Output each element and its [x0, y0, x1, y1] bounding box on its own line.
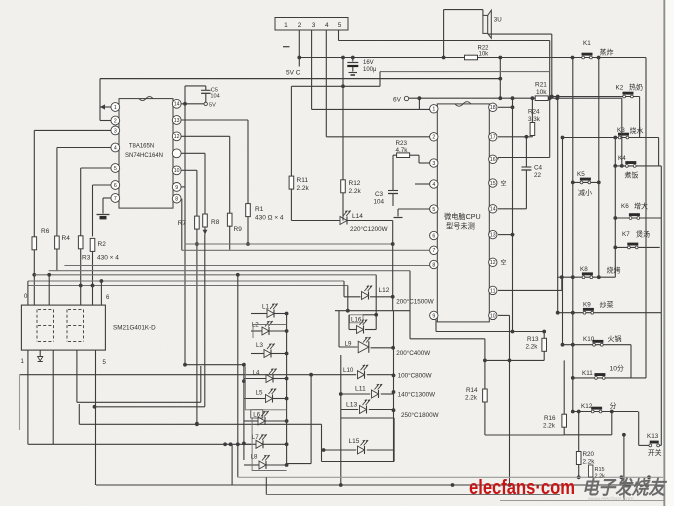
wire U1 pin12 to R9 [181, 135, 230, 137]
wire R1 down [247, 217, 249, 244]
svg-text:K2: K2 [616, 85, 624, 92]
wire bottom rail y477.3 [238, 476, 663, 478]
resistor R7 [195, 216, 200, 229]
svg-text:分: 分 [610, 401, 617, 410]
svg-text:104: 104 [374, 199, 385, 206]
label L6 box [251, 410, 263, 418]
wire y364.7 stub [185, 364, 244, 366]
wire LED column left rail [237, 275, 239, 478]
wire R23 to U2 pin3 [410, 154, 419, 156]
svg-text:K5: K5 [577, 171, 585, 178]
svg-text:K8: K8 [580, 266, 588, 273]
svg-text:100°C800W: 100°C800W [398, 372, 432, 380]
svg-text:2: 2 [114, 118, 117, 124]
wire display pin bottom x94.5 [95, 350, 97, 485]
wire U2 pin18 stub [498, 106, 513, 108]
wire 6V to K4 [621, 98, 623, 166]
svg-text:3: 3 [312, 22, 316, 29]
svg-text:www.elecfans.com: www.elecfans.com [587, 497, 634, 503]
wire riser x500 [499, 58, 501, 99]
svg-text:4: 4 [114, 145, 117, 151]
svg-text:16V: 16V [363, 60, 374, 66]
svg-text:2.2k: 2.2k [595, 474, 606, 480]
LED L14 [340, 217, 347, 225]
wire U2 pin17 to R24 [498, 136, 532, 138]
U1 pin 13 [172, 116, 181, 125]
wire 6V rail [409, 97, 622, 99]
svg-text:K9: K9 [583, 302, 591, 309]
wire U1 pin1/pin2 link [99, 79, 101, 121]
svg-text:14: 14 [174, 102, 180, 108]
wire U2 pin13 stub [498, 234, 513, 236]
svg-text:K11: K11 [582, 370, 593, 377]
resistor R1 [246, 204, 251, 217]
U2 pin 16 [489, 155, 497, 163]
svg-text:L7: L7 [252, 434, 259, 441]
U2 pin 11 [489, 286, 497, 294]
svg-text:L5: L5 [256, 390, 263, 397]
svg-text:SN74HC164N: SN74HC164N [125, 153, 163, 159]
wire K1 right corner [645, 58, 647, 378]
wire display pin bottom x76.9 [76, 350, 78, 402]
wire K9 row [558, 312, 662, 314]
wire L9 row [339, 346, 358, 348]
svg-text:空: 空 [501, 259, 507, 267]
wire bus y281 [28, 280, 344, 282]
resistor R8 [203, 214, 208, 227]
wire K5 right down [598, 58, 600, 278]
wire R8 down arrow [204, 226, 206, 234]
U2 pin 17 [489, 133, 497, 141]
button K5 [580, 181, 583, 184]
capacitor C5 104 [185, 85, 206, 87]
resistor R12 2.2k [341, 180, 346, 193]
wire y444.3 row [28, 443, 251, 445]
LED L8 [259, 461, 266, 469]
svg-text:22: 22 [534, 172, 542, 179]
U1 pin 1 [111, 103, 120, 112]
U1 pin 10 [172, 166, 181, 175]
wire U1 pin11 to R8 [181, 152, 205, 154]
svg-text:10k: 10k [479, 52, 490, 58]
svg-text:6: 6 [114, 183, 117, 189]
resistor R15 2.2k behind watermark [589, 465, 593, 477]
svg-text:L11: L11 [355, 386, 366, 393]
U1 pin 6 [111, 181, 120, 190]
wire U2 pin14 to C4 [498, 208, 526, 210]
svg-text:K7: K7 [622, 231, 630, 238]
svg-text:L15: L15 [349, 438, 360, 445]
LED L12 [362, 292, 369, 300]
svg-text:16: 16 [490, 157, 496, 163]
wire L2 row [251, 330, 262, 332]
wire R6 down to display [33, 250, 35, 305]
svg-text:6V: 6V [393, 97, 402, 104]
U2 pin 14 [489, 205, 497, 213]
wire bus y86.3 to R11 [291, 85, 380, 87]
svg-text:减小: 减小 [578, 188, 592, 197]
svg-text:R7: R7 [178, 220, 187, 227]
svg-text:热奶: 热奶 [629, 83, 643, 92]
svg-text:2.2k: 2.2k [583, 459, 596, 466]
resistor R2 [90, 238, 95, 251]
wire K2 row [552, 96, 640, 98]
svg-text:炒菜: 炒菜 [600, 300, 614, 309]
resistor R4 [55, 236, 60, 249]
svg-text:开关: 开关 [648, 448, 662, 457]
LED L16 [357, 326, 364, 334]
wire R20 leads [578, 412, 580, 452]
wire U2 pin16 right [498, 157, 550, 159]
svg-text:10: 10 [490, 313, 496, 319]
wire L16 loop right leg [409, 271, 411, 339]
wire y424.3 row [78, 404, 80, 424]
wire K12 row [573, 411, 638, 413]
svg-text:微电脑CPU: 微电脑CPU [444, 212, 481, 221]
wire U1 pin5 to R3 [81, 167, 111, 169]
svg-text:14: 14 [490, 207, 496, 213]
wire R14 leads [484, 339, 486, 389]
wire R13 top [543, 332, 545, 339]
wire U1 pin14 to 5V node [181, 103, 204, 105]
button K8 [582, 276, 585, 279]
wire J1 pin3 to CPU pin1 row [311, 30, 313, 109]
LED L6 [258, 417, 265, 425]
IC U1 SN74HC164N body [119, 99, 173, 209]
wire L7 row [244, 443, 256, 445]
U1 pin 14 [172, 99, 181, 108]
NC mark pin1 [283, 46, 290, 48]
wire U1 pin3 to R6 [34, 129, 111, 131]
wire left hook x339 [338, 311, 340, 347]
svg-text:1: 1 [284, 22, 288, 29]
U2 pin 10 [489, 311, 497, 319]
U1 pin 12 [172, 132, 181, 141]
svg-text:430 Ω × 4: 430 Ω × 4 [255, 215, 284, 222]
svg-text:L6: L6 [253, 411, 260, 418]
wire bus y265.5 to U2 pin8 [64, 265, 429, 267]
svg-text:9: 9 [432, 313, 435, 319]
svg-text:L10: L10 [343, 367, 354, 374]
resistor R22 10k [465, 55, 478, 60]
capacitor C2 electrolytic 16V 100u [352, 58, 354, 62]
svg-text:11: 11 [490, 288, 495, 294]
U1 pin 8 [172, 194, 181, 203]
wire y406.8 [95, 406, 205, 408]
LED L13 [360, 406, 367, 414]
ground U1 pin7 [97, 214, 110, 216]
svg-text:K13: K13 [647, 433, 659, 440]
svg-text:R20: R20 [583, 451, 595, 458]
U2 pin 4 [430, 180, 438, 188]
button K12 [591, 410, 594, 413]
wire U2 pin10 down [498, 314, 510, 316]
wire U1 pin6 to R2 [93, 184, 111, 186]
svg-text:L14: L14 [352, 213, 363, 220]
svg-text:T8A165N: T8A165N [129, 144, 154, 150]
wire bottom right y500.5 [500, 500, 665, 502]
svg-text:6: 6 [432, 233, 435, 239]
svg-text:2.2k: 2.2k [349, 188, 362, 195]
wire K7 row [615, 246, 659, 248]
svg-text:5: 5 [338, 22, 342, 29]
U2 pin 8 [430, 260, 438, 268]
wire K13 row [639, 444, 651, 446]
CPU U2 body [437, 104, 489, 322]
wire R3 down to display [80, 249, 82, 305]
svg-text:8: 8 [175, 196, 178, 202]
U1 pin 4 [111, 143, 120, 152]
svg-text:13: 13 [490, 232, 496, 238]
wire U1 pin8 down [181, 199, 183, 251]
svg-text:12: 12 [174, 134, 180, 140]
U2 pin 2 [430, 133, 438, 141]
button K4 [626, 165, 629, 168]
wire L1 row [251, 313, 267, 315]
wire K12-K13 link [638, 412, 640, 446]
svg-text:2: 2 [432, 135, 435, 141]
wire C4 top [525, 137, 527, 164]
U2 pin 7 [430, 246, 438, 254]
wire long row y374.7 [20, 374, 357, 376]
wire left edge drop [27, 281, 29, 305]
capacitor C3 104 [388, 190, 398, 192]
wire display pin bottom x53.2 [52, 350, 54, 444]
wire R16 bottom [563, 427, 565, 435]
svg-text:蒸炸: 蒸炸 [600, 48, 614, 57]
wire y310.7 [335, 310, 410, 312]
svg-text:8: 8 [432, 262, 435, 268]
wire J1 pin4 to CPU pin2 [325, 30, 327, 137]
wire L14 row [291, 220, 339, 222]
wire LED group right rail [393, 311, 395, 462]
resistor R9 [227, 213, 232, 226]
resistor R21 10k [535, 96, 548, 101]
wire y402.3 [77, 401, 201, 403]
svg-text:10: 10 [174, 168, 180, 174]
svg-text:增大: 增大 [634, 202, 648, 211]
svg-text:3: 3 [114, 128, 117, 134]
svg-text:C4: C4 [534, 165, 543, 172]
svg-text:3: 3 [432, 161, 435, 167]
wire K4 row [615, 165, 661, 167]
wire L6 row [244, 420, 258, 422]
wire L8 row [244, 464, 259, 466]
wire L2 frame [253, 325, 287, 339]
svg-text:140°C1300W: 140°C1300W [398, 391, 436, 399]
svg-text:10分: 10分 [610, 364, 625, 373]
wire U2 pin9 down [435, 320, 437, 332]
wire display feed x101.4 [100, 281, 102, 305]
svg-text:200°C400W: 200°C400W [396, 349, 430, 357]
svg-text:12: 12 [490, 260, 496, 266]
wire L10 row [367, 374, 394, 376]
svg-text:4.7k: 4.7k [396, 147, 409, 154]
wire R12 leads [342, 58, 344, 180]
wire L3 row [251, 353, 264, 355]
svg-text:1: 1 [114, 105, 117, 111]
svg-text:K3: K3 [617, 127, 625, 134]
wire 6V to CPU pin1 [418, 98, 420, 109]
svg-text:430 × 4: 430 × 4 [97, 255, 119, 262]
wire LED column left rail 2 [243, 365, 245, 460]
svg-text:2: 2 [298, 22, 302, 29]
svg-text:2.2k: 2.2k [465, 395, 478, 402]
LED L10 [358, 371, 365, 379]
wire L13 row [341, 409, 358, 411]
wire bus y250.3 to U2 pin7 [182, 249, 430, 251]
display decimal diode [39, 350, 41, 356]
resistor R14 2.2k [483, 389, 488, 402]
wire rail x615.3 [614, 138, 616, 278]
wire L6-L8 frame [252, 418, 287, 471]
U2 pin 6 [430, 231, 438, 239]
resistor R24 3.3k [530, 123, 535, 136]
LED L9 big [358, 341, 369, 353]
svg-text:R11: R11 [297, 177, 309, 184]
svg-text:型号未测: 型号未测 [446, 221, 475, 230]
svg-text:R3: R3 [82, 255, 91, 262]
svg-text:烧烤: 烧烤 [607, 266, 621, 275]
svg-text:1: 1 [432, 107, 435, 113]
svg-text:K12: K12 [581, 403, 593, 410]
svg-text:18: 18 [490, 105, 496, 111]
svg-text:2.2k: 2.2k [543, 423, 556, 430]
svg-text:烧水: 烧水 [630, 126, 644, 135]
wire L4 row [244, 378, 266, 380]
resistor R20 2.2k [576, 452, 581, 465]
svg-text:L12: L12 [379, 287, 390, 294]
svg-text:9: 9 [175, 185, 178, 191]
wire K5 row [573, 181, 599, 183]
wire 5V rail [299, 57, 646, 59]
svg-text:200°C1500W: 200°C1500W [396, 298, 434, 306]
wire L5 row [244, 398, 265, 400]
LED L5 [266, 395, 273, 403]
wire K4-K6 link [660, 166, 662, 218]
button K2 [623, 95, 626, 98]
wire R16 riser [563, 360, 565, 415]
svg-text:火锅: 火锅 [608, 334, 622, 343]
svg-text:250°C1800W: 250°C1800W [401, 411, 439, 419]
wire K6 row [615, 217, 661, 219]
button K13 [649, 444, 652, 447]
svg-text:C3: C3 [375, 191, 384, 198]
wire K10-K11 link [630, 345, 632, 378]
wire L4 frame [245, 367, 286, 410]
wire x340.8 riser [340, 355, 342, 485]
wire R4 down [56, 249, 58, 271]
wire x623.9 drop [623, 435, 625, 501]
U1 pin 9 [172, 183, 181, 192]
U2 pin 18 [489, 103, 497, 111]
wire L15 loop [321, 424, 323, 461]
button K9 [583, 311, 586, 314]
U1 pin 5 [111, 164, 120, 173]
svg-text:10k: 10k [536, 89, 547, 96]
wire bottom y494.5 [265, 477, 267, 494]
wire L16 loop [363, 314, 376, 316]
svg-text:煲汤: 煲汤 [636, 230, 650, 239]
svg-text:R4: R4 [62, 235, 71, 242]
wire K8 row [558, 276, 616, 278]
svg-text:R12: R12 [349, 180, 361, 187]
svg-text:R1: R1 [255, 206, 264, 213]
wire K3 row [563, 137, 659, 139]
capacitor C4 [525, 164, 527, 167]
wire bus y285.5 [28, 285, 348, 287]
wire LED column right rail [286, 314, 288, 464]
svg-text:2.2k: 2.2k [526, 344, 539, 351]
U1 pin 3 [111, 126, 120, 135]
wire R2 down to display [92, 251, 94, 305]
wire J1 pin2 to 5V rail [298, 31, 300, 67]
svg-text:L4: L4 [253, 370, 260, 377]
svg-text:15: 15 [490, 181, 496, 187]
resistor R13 2.2k [542, 338, 547, 351]
svg-text:2.2k: 2.2k [297, 185, 310, 192]
U2 pin 3 [430, 159, 438, 167]
wire bus y274.8 [34, 274, 376, 276]
svg-text:7: 7 [432, 248, 435, 254]
wire bus y270.7 [49, 270, 410, 272]
button K3 [618, 136, 621, 139]
wire display pin bottom x27.9 [27, 350, 29, 444]
svg-text:K10: K10 [583, 336, 595, 343]
LED L4 [266, 375, 273, 383]
wire R11 to L14 [290, 189, 292, 221]
wire K2-K3 link [639, 97, 641, 138]
wire U1 pin9 down [181, 186, 185, 188]
svg-text:L1: L1 [262, 304, 269, 311]
button K11 [595, 377, 598, 380]
LED L11 [372, 390, 379, 398]
U2 pin 15 [489, 179, 497, 187]
svg-text:R6: R6 [41, 228, 50, 235]
U2 pin 1 [430, 105, 438, 113]
U1 pin 2 [111, 116, 120, 125]
svg-text:K1: K1 [583, 40, 591, 47]
svg-text:R16: R16 [544, 415, 556, 422]
wire U1 pin1 input arrow [100, 106, 111, 108]
wire speaker bottom lead [488, 33, 552, 35]
svg-text:L3: L3 [256, 342, 263, 349]
svg-text:R13: R13 [527, 336, 539, 343]
svg-text:4: 4 [432, 182, 435, 188]
wire R9 down [229, 226, 231, 250]
svg-text:elecfans·com: elecfans·com [469, 477, 575, 499]
wire rail x557.7 [557, 97, 559, 313]
svg-text:4: 4 [325, 22, 329, 29]
svg-text:SM21G401K-D: SM21G401K-D [113, 325, 156, 332]
wire R24 leads [531, 98, 533, 122]
wire speaker left lead [443, 10, 445, 58]
svg-text:R24: R24 [528, 109, 540, 116]
resistor R16 2.2k [562, 414, 567, 427]
svg-text:R15: R15 [595, 467, 605, 473]
svg-text:5V: 5V [209, 103, 216, 109]
LED L7 [256, 440, 263, 448]
speaker BU 3U [483, 15, 488, 33]
node 5V terminal at U1 [204, 102, 207, 105]
LED L2 [262, 327, 269, 335]
svg-text:R21: R21 [535, 82, 547, 89]
connector J1 (5-pin header) [275, 18, 348, 31]
resistor R6 [32, 237, 37, 250]
wire bottom rail y484.3 [96, 484, 663, 486]
wire U2 pin11 right [498, 289, 562, 291]
resistor R23 4.7k [397, 153, 410, 158]
